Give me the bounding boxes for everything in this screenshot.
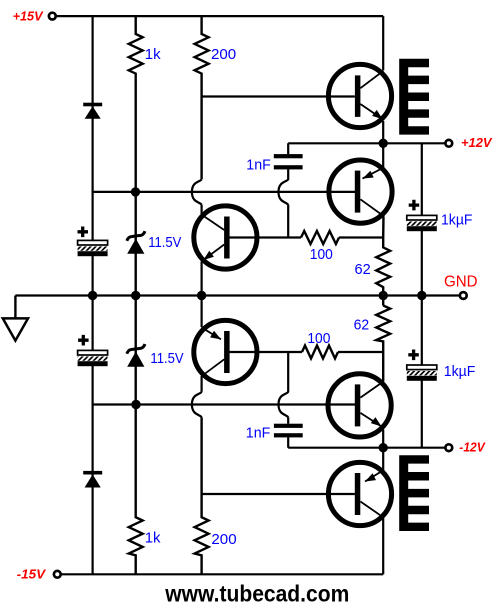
resistor R6 62 (top) with Q2 collector line	[376, 216, 390, 305]
transistor Q1 error amp NPN (middle top)	[194, 206, 257, 269]
wire top +15V rail	[56, 15, 383, 17]
wire ground rail	[15, 294, 459, 296]
svg-text:62: 62	[355, 261, 371, 278]
svg-text:100: 100	[307, 330, 330, 347]
transistor Q3 error amp PNP (middle bottom)	[194, 320, 257, 383]
capacitor C1 1nF plates (top)	[274, 154, 303, 169]
transistor Q6 output PNP (bottom)	[328, 462, 391, 525]
diode D1 (top left)	[83, 103, 102, 119]
svg-text:-15V: -15V	[17, 567, 47, 582]
wire 100 ohm to Q4 collector line (bottom)	[338, 351, 383, 353]
zener Z2 11.5V (bottom)	[127, 344, 145, 367]
terminal -12V	[445, 444, 452, 451]
wire Q3 collector down to hop	[201, 376, 203, 392]
resistor R4 100 (top)	[301, 231, 339, 244]
transistor Q5 output NPN (top)	[328, 64, 391, 127]
transistor Q2 driver PNP (top right)	[329, 160, 392, 223]
wire base of output transistor Q5 (top)	[202, 95, 355, 97]
svg-text:62: 62	[354, 316, 370, 333]
capacitor C2 1nF bottom leads with hop	[279, 352, 289, 448]
node I -12V output node	[379, 443, 388, 452]
resistor R7 62 (bottom)	[376, 306, 390, 382]
wire left column x=92 (diodes and electrolytic caps)	[91, 16, 93, 574]
terminal +15V	[49, 13, 56, 20]
capacitor C1 1nF top leads with hop	[279, 143, 289, 237]
node G ground rail x=422	[417, 291, 426, 300]
node F ground rail x=383	[379, 291, 388, 300]
wire bottom reference node to Q4 base y=404.5	[93, 403, 358, 405]
ground triangle	[3, 318, 28, 340]
heatsink bottom	[399, 455, 429, 531]
wire hop over base wire at (201.6,192)	[192, 179, 202, 204]
zener Z1 11.5V (top)	[127, 231, 145, 254]
svg-text:11.5V: 11.5V	[148, 234, 181, 251]
electrolytic capacitor C3 (top left)	[78, 227, 108, 257]
node A reference top (1k/zener junction)	[131, 187, 140, 196]
diode D2 (bottom left)	[83, 471, 102, 488]
svg-text:1k: 1k	[145, 46, 161, 63]
heatsink top	[399, 59, 429, 135]
electrolytic capacitor C5 1kuF (top right)	[407, 200, 437, 231]
svg-text:1k: 1k	[145, 530, 161, 547]
capacitor C2 1nF plates (bottom)	[274, 424, 303, 438]
svg-text:1kµF: 1kµF	[444, 363, 476, 380]
electrolytic capacitor C4 (bottom left)	[78, 335, 108, 366]
node E ground rail x=202	[197, 291, 206, 300]
terminal -15V	[54, 571, 61, 578]
resistor R2 200 (top) with wire x=201.6 upper part	[195, 16, 209, 179]
ground symbol	[14, 296, 16, 319]
wire 100 ohm to Q2 collector line	[339, 236, 383, 238]
resistor R1 1k (top) with its wire x=136	[129, 16, 143, 574]
svg-text:-12V: -12V	[459, 440, 486, 455]
terminal GND	[460, 292, 467, 299]
resistor R5 100 (bottom)	[302, 346, 338, 359]
svg-text:+12V: +12V	[461, 135, 493, 150]
wire -12V output rail	[288, 447, 445, 449]
node B +12V output node	[379, 139, 388, 148]
wire reference node to Q2 base y=192	[93, 191, 358, 193]
resistor R3 200 (bottom) with wire x=201.6 lower part	[195, 417, 209, 574]
wire from hop to Q1 collector	[201, 205, 203, 214]
wire hop over base wire at (201.6,404.5)	[192, 392, 202, 417]
svg-text:www.tubecad.com: www.tubecad.com	[164, 580, 349, 606]
wire +12V output rail	[288, 142, 445, 144]
wire Q4 emitter to -12V node to Q6 emitter	[382, 430, 384, 471]
transistor Q4 driver NPN (bottom right)	[328, 374, 391, 437]
svg-text:GND: GND	[444, 274, 478, 291]
wire Q6 collector to bottom rail	[382, 518, 384, 575]
svg-text:1kµF: 1kµF	[441, 212, 473, 229]
wire 1kuF caps column x=422	[421, 143, 423, 447]
node H reference bottom	[131, 400, 140, 409]
wire Q1 base to 100 ohm resistor	[230, 236, 302, 238]
svg-text:1nF: 1nF	[246, 156, 270, 173]
wire collector line x=383 top transistor	[382, 16, 384, 168]
electrolytic capacitor C6 1kuF (bottom right)	[407, 350, 437, 381]
svg-text:100: 100	[310, 246, 333, 263]
svg-text:11.5V: 11.5V	[150, 350, 183, 367]
wire base of output transistor Q6 (bottom)	[202, 493, 355, 495]
node C ground rail x=92	[88, 291, 97, 300]
svg-text:+15V: +15V	[13, 8, 44, 23]
wire Q1 emitter to ground rail to Q3 emitter	[201, 262, 203, 328]
svg-text:200: 200	[211, 531, 236, 548]
wire Q3 base to 100 ohm resistor (bottom)	[230, 351, 303, 353]
node D ground rail x=136	[131, 291, 140, 300]
wire bottom -15V rail	[61, 573, 383, 575]
svg-text:200: 200	[211, 46, 236, 63]
svg-text:1nF: 1nF	[246, 425, 270, 442]
terminal +12V	[445, 140, 452, 147]
